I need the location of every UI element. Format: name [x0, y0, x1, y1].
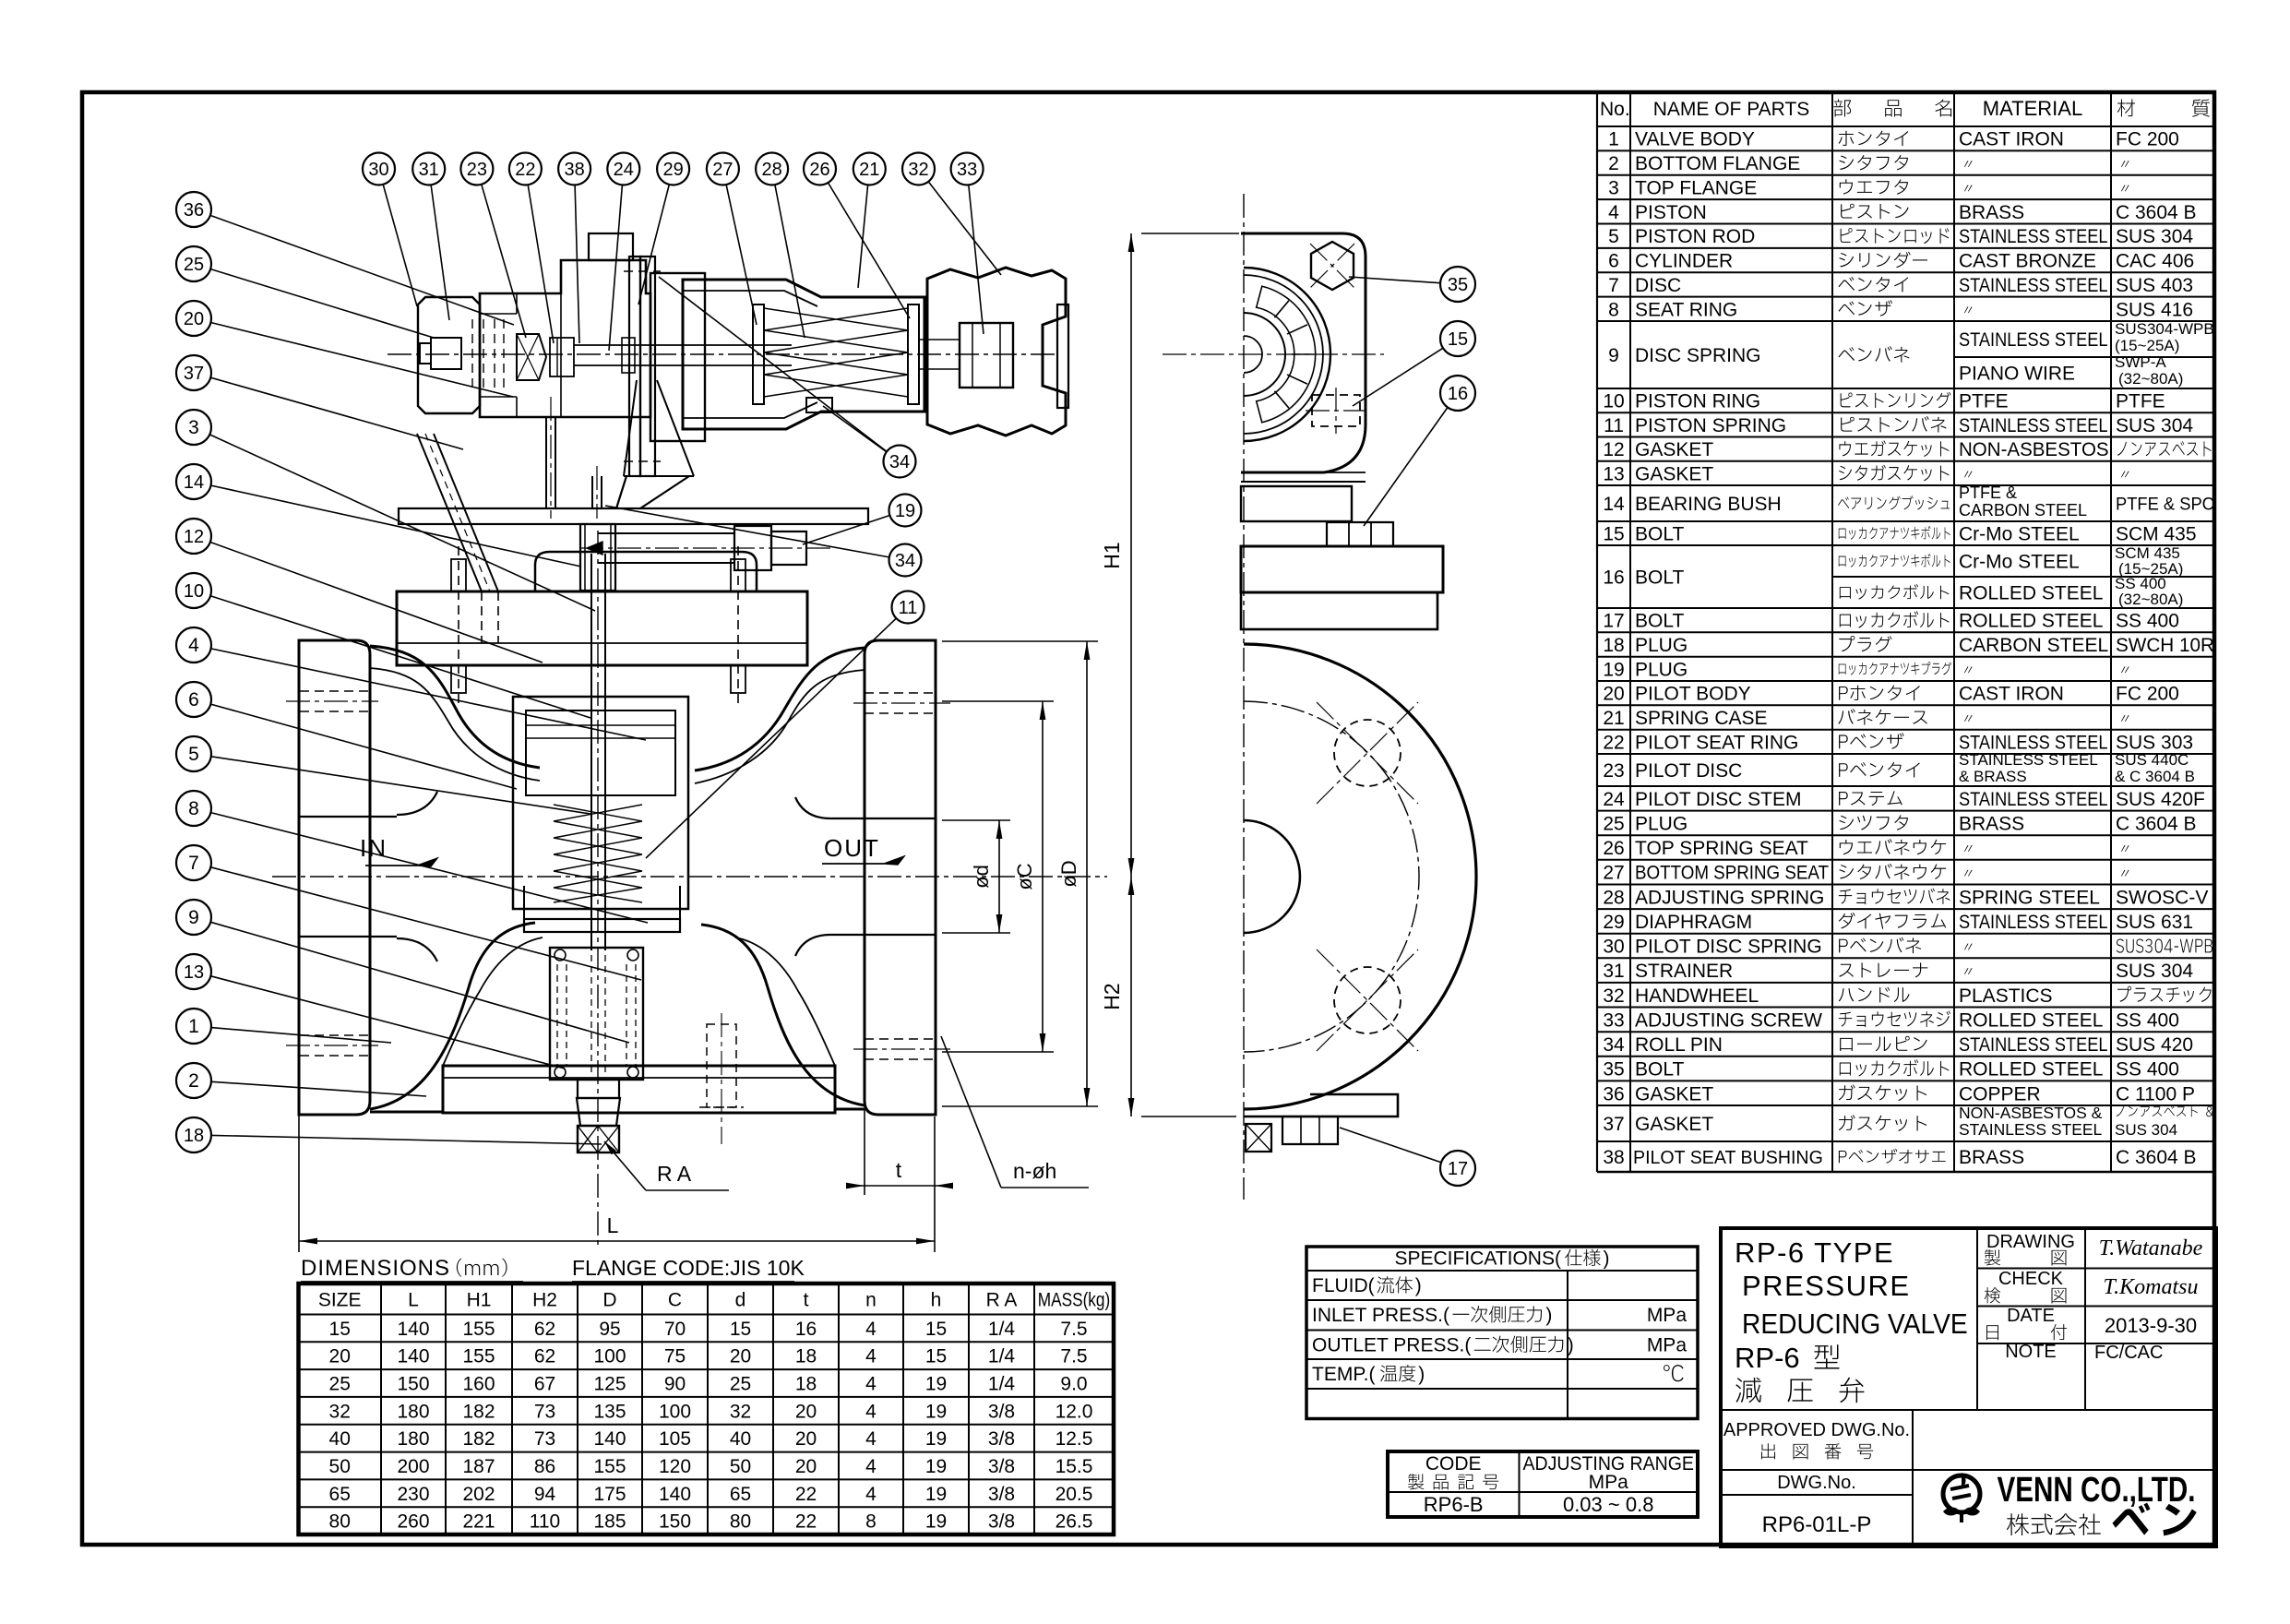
- balloon 24: [607, 153, 639, 185]
- svg-text:135: 135: [593, 1401, 626, 1422]
- svg-text:CYLINDER: CYLINDER: [1635, 251, 1733, 272]
- svg-text:SPRING STEEL: SPRING STEEL: [1959, 887, 2100, 908]
- svg-text:100: 100: [593, 1346, 626, 1367]
- svg-text:1/4: 1/4: [988, 1374, 1016, 1395]
- svg-text:4: 4: [865, 1456, 877, 1477]
- svg-text:35: 35: [1603, 1059, 1624, 1081]
- balloon 28: [756, 153, 788, 185]
- svg-text:9: 9: [188, 907, 199, 928]
- svg-text:155: 155: [462, 1319, 495, 1340]
- side diaphragm circles: [1244, 268, 1330, 441]
- diaphragm housing: [650, 273, 705, 441]
- side view centerline: [1243, 194, 1245, 1200]
- svg-text:STAINLESS STEEL: STAINLESS STEEL: [1959, 751, 2098, 769]
- svg-text:øD: øD: [1057, 860, 1080, 887]
- svg-text:CAC 406: CAC 406: [2116, 251, 2194, 272]
- svg-text:STAINLESS STEEL: STAINLESS STEEL: [1959, 789, 2108, 811]
- svg-text:3/8: 3/8: [988, 1456, 1015, 1477]
- n-oh label: [941, 1036, 1001, 1188]
- piston: [526, 710, 675, 795]
- svg-text:RP-6: RP-6: [1735, 1342, 1800, 1374]
- svg-text:4: 4: [865, 1484, 877, 1505]
- svg-text:40: 40: [730, 1428, 751, 1450]
- svg-text:PTFE: PTFE: [2116, 391, 2165, 412]
- svg-text:28: 28: [761, 160, 781, 180]
- svg-text:PILOT DISC: PILOT DISC: [1635, 760, 1742, 782]
- svg-text:65: 65: [730, 1484, 751, 1505]
- svg-text:BRASS: BRASS: [1959, 1147, 2024, 1168]
- svg-text:BRASS: BRASS: [1959, 202, 2024, 223]
- svg-text:182: 182: [462, 1428, 495, 1450]
- piston spring: [554, 805, 642, 902]
- svg-text:9.0: 9.0: [1060, 1374, 1087, 1395]
- balloon 18: [176, 1117, 211, 1152]
- svg-text:STAINLESS STEEL: STAINLESS STEEL: [1959, 329, 2108, 352]
- svg-text:STRAINER: STRAINER: [1635, 961, 1733, 982]
- valve body outline: [370, 646, 540, 768]
- balloon 13: [176, 954, 211, 989]
- balloon 26: [804, 153, 836, 185]
- stem guide neck: [580, 524, 615, 591]
- svg-text:23: 23: [467, 160, 487, 180]
- svg-text:PILOT SEAT BUSHING: PILOT SEAT BUSHING: [1633, 1148, 1823, 1168]
- disc cage: [550, 948, 643, 1080]
- svg-text:n-øh: n-øh: [1013, 1159, 1056, 1183]
- balloon 9: [176, 900, 211, 935]
- svg-text:182: 182: [462, 1401, 495, 1422]
- centerline main horizontal axis: [272, 876, 1107, 878]
- svg-text:VENN CO.,LTD.: VENN CO.,LTD.: [1997, 1471, 2195, 1510]
- svg-text:T.Watanabe: T.Watanabe: [2099, 1236, 2203, 1260]
- svg-text:32: 32: [1603, 985, 1624, 1007]
- svg-text:1/4: 1/4: [988, 1319, 1016, 1340]
- svg-text:h: h: [931, 1290, 942, 1311]
- svg-text:19: 19: [925, 1511, 947, 1533]
- svg-text:SUS 304: SUS 304: [2116, 961, 2193, 982]
- parts list table grid: [1596, 90, 1598, 1172]
- centerline pilot horizontal axis: [388, 353, 1059, 355]
- svg-text:20: 20: [795, 1428, 817, 1450]
- svg-text:STAINLESS STEEL: STAINLESS STEEL: [1959, 912, 2108, 934]
- svg-text:SPECIFICATIONS(: SPECIFICATIONS(: [1395, 1248, 1561, 1270]
- seat ring plate: [523, 886, 525, 919]
- svg-text:20: 20: [795, 1456, 817, 1477]
- svg-text:): ): [1604, 1248, 1610, 1270]
- centerline stem vertical axis: [597, 531, 599, 1246]
- side pilot horizontal centerline: [1163, 353, 1384, 355]
- svg-text:19: 19: [925, 1374, 947, 1395]
- svg-text:17: 17: [1448, 1159, 1468, 1179]
- svg-text:FC/CAC: FC/CAC: [2094, 1343, 2163, 1363]
- svg-text:d: d: [735, 1290, 746, 1311]
- svg-text:13: 13: [1603, 463, 1624, 484]
- svg-text:APPROVED DWG.No.: APPROVED DWG.No.: [1723, 1420, 1910, 1440]
- svg-text:REDUCING VALVE: REDUCING VALVE: [1742, 1308, 1968, 1341]
- svg-text:19: 19: [925, 1401, 947, 1422]
- svg-text:125: 125: [593, 1374, 626, 1395]
- svg-text:19: 19: [925, 1428, 947, 1450]
- balloon 3: [176, 410, 211, 445]
- svg-text:& C 3604 B: & C 3604 B: [2115, 768, 2195, 785]
- svg-text:4: 4: [865, 1319, 877, 1340]
- balloon 14: [176, 464, 211, 499]
- svg-text:38: 38: [1603, 1147, 1624, 1168]
- svg-text:SEAT RING: SEAT RING: [1635, 299, 1737, 320]
- svg-text:L: L: [607, 1213, 619, 1237]
- svg-text:95: 95: [599, 1319, 620, 1340]
- balloon 12: [176, 519, 211, 554]
- svg-text:202: 202: [462, 1484, 495, 1505]
- svg-text:90: 90: [664, 1374, 686, 1395]
- svg-text:12.5: 12.5: [1056, 1428, 1093, 1450]
- svg-text:DIMENSIONS: DIMENSIONS: [301, 1256, 450, 1281]
- svg-text:FLANGE CODE:JIS 10K: FLANGE CODE:JIS 10K: [572, 1256, 805, 1280]
- svg-text:18: 18: [1603, 635, 1624, 656]
- svg-text:PTFE: PTFE: [1959, 391, 2009, 412]
- svg-text:DISC SPRING: DISC SPRING: [1635, 345, 1761, 366]
- svg-text:PILOT SEAT RING: PILOT SEAT RING: [1635, 732, 1798, 753]
- svg-text:20: 20: [1603, 684, 1624, 705]
- svg-text:25: 25: [1603, 814, 1624, 835]
- svg-text:4: 4: [865, 1428, 877, 1450]
- svg-text:TOP SPRING SEAT: TOP SPRING SEAT: [1635, 838, 1808, 859]
- svg-text:34: 34: [1603, 1034, 1625, 1056]
- bonnet cap dome: [535, 552, 757, 591]
- svg-text:22: 22: [795, 1511, 817, 1533]
- svg-text:MASS(kg): MASS(kg): [1038, 1290, 1110, 1311]
- svg-text:SS 400: SS 400: [2116, 611, 2179, 632]
- svg-text:25: 25: [730, 1374, 751, 1395]
- svg-text:PILOT BODY: PILOT BODY: [1635, 684, 1751, 705]
- svg-text:22: 22: [515, 160, 535, 180]
- svg-text:GASKET: GASKET: [1635, 1114, 1713, 1135]
- svg-text:80: 80: [329, 1511, 351, 1533]
- pilot body: [480, 260, 650, 417]
- side body flange circle: [1244, 644, 1476, 1109]
- svg-text:FC 200: FC 200: [2116, 684, 2179, 705]
- svg-text:4: 4: [1608, 202, 1619, 223]
- svg-text:221: 221: [462, 1511, 495, 1533]
- svg-text:22: 22: [1603, 732, 1624, 753]
- balloon 25: [176, 246, 211, 281]
- svg-text:DWG.No.: DWG.No.: [1777, 1473, 1856, 1493]
- svg-text:CODE: CODE: [1425, 1453, 1482, 1475]
- svg-text:GASKET: GASKET: [1635, 463, 1713, 484]
- svg-text:21: 21: [1603, 708, 1624, 729]
- svg-text:4: 4: [865, 1374, 877, 1395]
- svg-text:16: 16: [1448, 384, 1468, 404]
- svg-text:20: 20: [730, 1346, 751, 1367]
- side case bottom plate: [1241, 481, 1366, 483]
- svg-text:21: 21: [859, 160, 879, 180]
- svg-text:PILOT DISC SPRING: PILOT DISC SPRING: [1635, 937, 1822, 958]
- svg-text:CAST IRON: CAST IRON: [1959, 684, 2064, 705]
- svg-text:7.5: 7.5: [1060, 1346, 1087, 1367]
- svg-text:GASKET: GASKET: [1635, 439, 1713, 460]
- balloon 30: [363, 153, 395, 185]
- svg-text:20: 20: [795, 1401, 817, 1422]
- svg-text:t: t: [804, 1290, 809, 1311]
- svg-text:7: 7: [188, 853, 199, 874]
- svg-text:SUS 304: SUS 304: [2116, 415, 2193, 436]
- svg-text:H2: H2: [532, 1290, 557, 1311]
- svg-text:IN: IN: [360, 834, 388, 862]
- svg-text:200: 200: [397, 1456, 429, 1477]
- svg-text:4: 4: [865, 1346, 877, 1367]
- svg-text:180: 180: [397, 1428, 429, 1450]
- svg-text:150: 150: [397, 1374, 429, 1395]
- svg-text:PIANO WIRE: PIANO WIRE: [1959, 364, 2075, 385]
- svg-text:19: 19: [1603, 659, 1624, 680]
- svg-text:16: 16: [795, 1319, 817, 1340]
- svg-text:31: 31: [1603, 961, 1624, 982]
- side top flange slabs: [1241, 546, 1443, 592]
- svg-text:STAINLESS STEEL: STAINLESS STEEL: [1959, 415, 2108, 437]
- svg-text:): ): [1568, 1335, 1574, 1356]
- svg-text:L: L: [408, 1290, 419, 1311]
- balloon 5: [176, 736, 211, 771]
- svg-text:27: 27: [712, 160, 733, 180]
- svg-text:8: 8: [188, 798, 199, 819]
- balloon 29: [657, 153, 689, 185]
- svg-text:C 1100 P: C 1100 P: [2116, 1083, 2195, 1105]
- top flange plate: [397, 591, 807, 665]
- svg-text:175: 175: [593, 1484, 626, 1505]
- svg-text:GASKET: GASKET: [1635, 1083, 1713, 1105]
- svg-text:DRAWING: DRAWING: [1986, 1232, 2075, 1252]
- svg-text:23: 23: [1603, 760, 1624, 782]
- svg-text:3/8: 3/8: [988, 1401, 1015, 1422]
- svg-text:ROLLED STEEL: ROLLED STEEL: [1959, 1059, 2103, 1081]
- svg-text:25: 25: [184, 255, 204, 275]
- svg-text:DISC: DISC: [1635, 275, 1681, 296]
- valve bottom flange plate: [443, 1066, 835, 1113]
- svg-text:37: 37: [184, 364, 204, 384]
- adjusting spring: [764, 308, 908, 397]
- svg-text:NON-ASBESTOS &: NON-ASBESTOS &: [1959, 1104, 2103, 1122]
- svg-text:3: 3: [188, 417, 199, 438]
- svg-text:C 3604 B: C 3604 B: [2116, 1147, 2197, 1168]
- svg-text:80: 80: [730, 1511, 751, 1533]
- svg-text:RP6-01L-P: RP6-01L-P: [1762, 1512, 1872, 1537]
- dimensions table grid: [299, 1284, 1115, 1534]
- svg-text:SUS 440C: SUS 440C: [2115, 751, 2189, 769]
- L dimension: [298, 1089, 300, 1252]
- svg-text:35: 35: [1448, 275, 1468, 295]
- svg-text:18: 18: [795, 1374, 817, 1395]
- svg-text:PISTON ROD: PISTON ROD: [1635, 226, 1755, 247]
- svg-text:STAINLESS STEEL: STAINLESS STEEL: [1959, 275, 2108, 297]
- svg-text:2013-9-30: 2013-9-30: [2105, 1314, 2197, 1337]
- balloon 33: [951, 153, 984, 185]
- diaphragm: [629, 257, 640, 476]
- svg-text:50: 50: [730, 1456, 751, 1477]
- svg-text:): ): [1545, 1305, 1552, 1326]
- svg-text:24: 24: [614, 160, 634, 180]
- svg-text:VALVE BODY: VALVE BODY: [1635, 129, 1755, 150]
- svg-text:15: 15: [730, 1319, 751, 1340]
- svg-text:15: 15: [1603, 524, 1624, 545]
- svg-text:140: 140: [397, 1319, 429, 1340]
- plug 19 horizontal: [598, 532, 734, 534]
- svg-text:4: 4: [865, 1401, 877, 1422]
- svg-text:33: 33: [957, 160, 977, 180]
- svg-text:MPa: MPa: [1647, 1305, 1688, 1326]
- svg-text:PLUG: PLUG: [1635, 814, 1688, 835]
- diaphragm bell skirt: [624, 380, 637, 476]
- spring case: [683, 280, 924, 429]
- svg-text:SCM 435: SCM 435: [2116, 524, 2197, 545]
- svg-text:MATERIAL: MATERIAL: [1983, 97, 2082, 120]
- svg-text:MPa: MPa: [1647, 1335, 1688, 1356]
- roll pin: [806, 398, 832, 412]
- pilot pipe slanted: [417, 434, 482, 591]
- balloon 8: [176, 791, 211, 826]
- svg-text:2: 2: [1608, 153, 1619, 174]
- side bottom foot: [1244, 1094, 1398, 1116]
- svg-text:BRASS: BRASS: [1959, 814, 2024, 835]
- pilot sensing pipe B: [591, 476, 593, 508]
- svg-text:13: 13: [184, 962, 204, 983]
- balloon 2: [176, 1063, 211, 1098]
- bonnet bolts: [458, 546, 459, 709]
- OUT flange (right): [865, 640, 936, 1115]
- svg-text:FLUID(: FLUID(: [1312, 1275, 1375, 1296]
- svg-text:30: 30: [1603, 937, 1624, 958]
- svg-text:SPRING CASE: SPRING CASE: [1635, 708, 1768, 729]
- svg-text:65: 65: [329, 1484, 351, 1505]
- svg-text:SS 400: SS 400: [2116, 1059, 2179, 1081]
- svg-text:n: n: [865, 1290, 877, 1311]
- svg-text:15: 15: [925, 1346, 947, 1367]
- svg-text:33: 33: [1603, 1009, 1624, 1031]
- svg-text:3/8: 3/8: [988, 1428, 1015, 1450]
- svg-text:19: 19: [925, 1484, 947, 1505]
- svg-text:19: 19: [925, 1456, 947, 1477]
- svg-text:140: 140: [593, 1428, 626, 1450]
- svg-text:D: D: [602, 1290, 616, 1311]
- code / adjusting range table: [1388, 1451, 1698, 1517]
- svg-text:34: 34: [889, 452, 910, 472]
- svg-text:185: 185: [593, 1511, 626, 1533]
- side hex bolt 35: [1311, 242, 1354, 290]
- svg-text:PTFE &: PTFE &: [1959, 484, 2017, 502]
- svg-text:NAME OF PARTS: NAME OF PARTS: [1653, 99, 1810, 120]
- svg-text:32: 32: [908, 160, 928, 180]
- svg-text:BOLT: BOLT: [1635, 524, 1684, 545]
- svg-text:t: t: [896, 1158, 902, 1182]
- side view balloons 35 15 16 17: [1440, 267, 1475, 302]
- svg-text:INLET PRESS.(: INLET PRESS.(: [1312, 1305, 1449, 1326]
- svg-text:BOTTOM SPRING SEAT: BOTTOM SPRING SEAT: [1635, 863, 1829, 884]
- svg-text:120: 120: [659, 1456, 691, 1477]
- svg-text:(32~80A): (32~80A): [2118, 591, 2183, 608]
- svg-text:NON-ASBESTOS: NON-ASBESTOS: [1959, 439, 2109, 460]
- svg-text:40: 40: [329, 1428, 351, 1450]
- svg-text:150: 150: [659, 1511, 691, 1533]
- svg-text:7: 7: [1608, 275, 1619, 296]
- svg-text:38: 38: [564, 160, 584, 180]
- balloon 20: [176, 301, 211, 336]
- svg-text:BOLT: BOLT: [1635, 1059, 1684, 1081]
- svg-text:STAINLESS STEEL: STAINLESS STEEL: [1959, 1034, 2108, 1057]
- svg-text:PLUG: PLUG: [1635, 659, 1688, 680]
- balloon 32: [902, 153, 935, 185]
- svg-text:8: 8: [865, 1511, 877, 1533]
- svg-text:100: 100: [659, 1401, 691, 1422]
- svg-text:32: 32: [730, 1401, 751, 1422]
- svg-text:STAINLESS STEEL: STAINLESS STEEL: [1959, 226, 2108, 248]
- svg-text:3: 3: [1608, 178, 1619, 199]
- balloon 10: [176, 573, 211, 608]
- svg-text:PISTON: PISTON: [1635, 202, 1707, 223]
- svg-text:50: 50: [329, 1456, 351, 1477]
- svg-text:15: 15: [329, 1319, 351, 1340]
- svg-text:OUTLET PRESS.(: OUTLET PRESS.(: [1312, 1335, 1471, 1356]
- svg-text:18: 18: [795, 1346, 817, 1367]
- svg-text:SUS 631: SUS 631: [2116, 912, 2193, 933]
- svg-text:25: 25: [329, 1374, 351, 1395]
- svg-text:ROLLED STEEL: ROLLED STEEL: [1959, 583, 2103, 604]
- svg-text:6: 6: [1608, 251, 1619, 272]
- svg-text:6: 6: [188, 689, 199, 710]
- svg-text:No.: No.: [1600, 99, 1630, 120]
- svg-text:15: 15: [925, 1319, 947, 1340]
- svg-text:105: 105: [659, 1428, 691, 1450]
- svg-text:16: 16: [1603, 567, 1624, 589]
- balloon 1: [176, 1009, 211, 1044]
- svg-text:DATE: DATE: [2007, 1306, 2055, 1326]
- svg-text:PLUG: PLUG: [1635, 635, 1688, 656]
- svg-text:24: 24: [1603, 789, 1625, 810]
- svg-text:73: 73: [534, 1428, 555, 1450]
- pilot strainer cap: [418, 297, 480, 413]
- svg-text:34: 34: [895, 551, 915, 571]
- svg-text:15.5: 15.5: [1056, 1456, 1093, 1477]
- balloon 22: [509, 153, 542, 185]
- svg-text:14: 14: [1603, 494, 1625, 515]
- svg-text:29: 29: [1603, 912, 1624, 933]
- svg-text:RP6-B: RP6-B: [1424, 1493, 1484, 1516]
- svg-text:NOTE: NOTE: [2005, 1342, 2057, 1362]
- svg-text:FC 200: FC 200: [2116, 129, 2179, 150]
- svg-text:Cr-Mo STEEL: Cr-Mo STEEL: [1959, 524, 2080, 545]
- svg-text:BOLT: BOLT: [1635, 567, 1684, 589]
- svg-text:62: 62: [534, 1319, 555, 1340]
- svg-text:T.Komatsu: T.Komatsu: [2104, 1275, 2199, 1299]
- svg-text:SWOSC-V: SWOSC-V: [2116, 887, 2208, 908]
- svg-text:26: 26: [809, 160, 829, 180]
- side bolt holes on flange: [1334, 720, 1401, 786]
- svg-text:ROLLED STEEL: ROLLED STEEL: [1959, 611, 2103, 632]
- svg-text:155: 155: [593, 1456, 626, 1477]
- svg-text:73: 73: [534, 1401, 555, 1422]
- pilot sensing pipe A: [545, 417, 547, 508]
- svg-text:PTFE & SPC: PTFE & SPC: [2116, 494, 2214, 513]
- svg-text:86: 86: [534, 1456, 555, 1477]
- svg-text:3/8: 3/8: [988, 1511, 1015, 1533]
- svg-text:15: 15: [1448, 329, 1468, 350]
- svg-text:1: 1: [188, 1016, 199, 1037]
- svg-text:MPa: MPa: [1589, 1472, 1629, 1493]
- svg-text:CARBON STEEL: CARBON STEEL: [1959, 635, 2108, 656]
- top spring seat: [908, 304, 919, 404]
- svg-text:10: 10: [1603, 391, 1624, 412]
- svg-text:32: 32: [329, 1401, 351, 1422]
- pilot mounting plate: [399, 508, 868, 524]
- svg-text:C: C: [668, 1290, 682, 1311]
- svg-text:CHECK: CHECK: [1998, 1269, 2064, 1289]
